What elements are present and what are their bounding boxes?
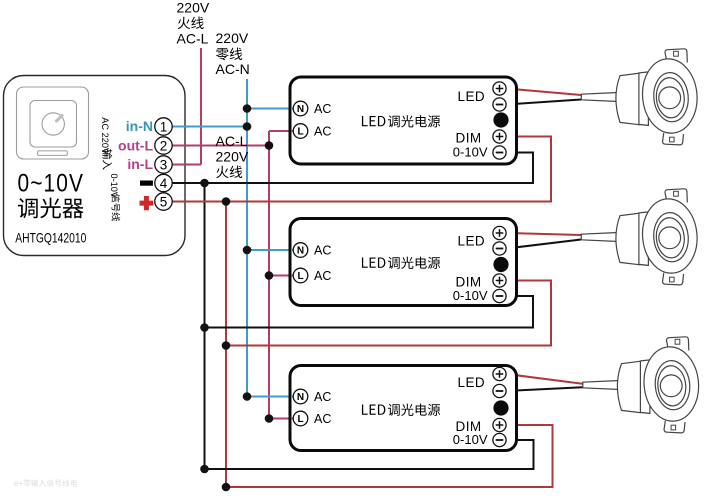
svg-text:AC: AC	[314, 269, 331, 283]
svg-text:LED: LED	[458, 89, 485, 104]
svg-text:AC: AC	[314, 244, 331, 258]
svg-text:220V: 220V	[177, 0, 210, 16]
svg-text:in-L: in-L	[127, 156, 153, 172]
svg-text:L: L	[297, 414, 303, 425]
svg-text:AHTGQ142010: AHTGQ142010	[15, 230, 86, 246]
svg-text:0-10V: 0-10V	[453, 432, 488, 447]
svg-text:LED: LED	[458, 375, 485, 390]
svg-text:4: 4	[160, 176, 168, 191]
svg-text:220V: 220V	[216, 149, 249, 165]
svg-text:1: 1	[160, 119, 168, 134]
svg-text:AC 220V: AC 220V	[100, 117, 110, 155]
svg-text:e+: e+	[14, 479, 23, 488]
svg-text:AC: AC	[314, 412, 331, 426]
svg-text:LED: LED	[458, 233, 485, 248]
svg-text:AC-L: AC-L	[177, 31, 209, 47]
svg-text:out-L: out-L	[118, 138, 153, 154]
svg-text:N: N	[297, 104, 304, 115]
svg-text:in-N: in-N	[126, 118, 153, 134]
svg-text:2: 2	[160, 138, 168, 153]
svg-text:N: N	[297, 392, 304, 403]
svg-text:AC: AC	[314, 102, 331, 116]
svg-text:AC: AC	[314, 125, 331, 139]
svg-text:5: 5	[160, 194, 168, 209]
svg-text:AC-L: AC-L	[216, 133, 248, 149]
svg-text:3: 3	[160, 157, 168, 172]
svg-text:0-10V: 0-10V	[453, 288, 488, 303]
svg-text:AC-N: AC-N	[216, 61, 250, 77]
svg-text:L: L	[297, 271, 303, 282]
svg-text:220V: 220V	[216, 30, 249, 46]
svg-text:DIM: DIM	[456, 131, 482, 146]
svg-text:L: L	[297, 127, 303, 138]
svg-text:AC: AC	[314, 390, 331, 404]
svg-text:0-10V: 0-10V	[453, 145, 488, 160]
svg-text:N: N	[297, 246, 304, 257]
svg-text:0~10V: 0~10V	[18, 170, 85, 198]
